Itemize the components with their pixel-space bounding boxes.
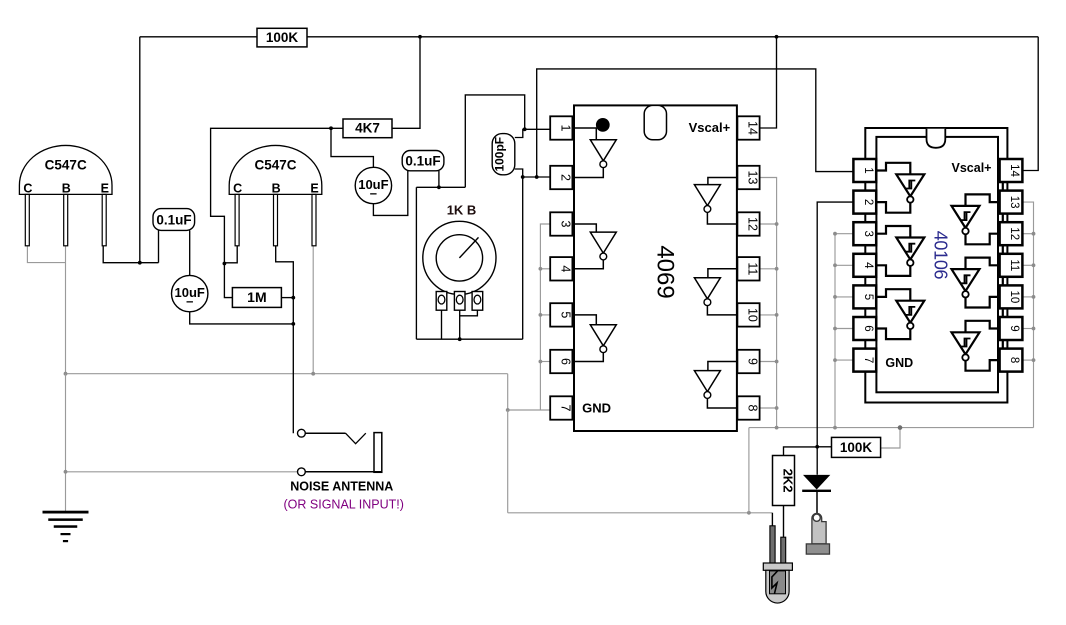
inverter U2D pins13-12 <box>952 194 1000 244</box>
svg-text:0.1uF: 0.1uF <box>156 212 191 227</box>
wire Q2 collector lead <box>224 246 237 263</box>
wire C2 10uF top lead to C1 <box>189 230 191 275</box>
label Vscal+ U2 <box>952 161 992 175</box>
jack tip spring contact <box>346 433 366 444</box>
LED D2 <box>763 526 792 603</box>
wire loop to 4069 pin1 <box>465 95 524 187</box>
node sleeve/ground junction <box>64 470 68 474</box>
svg-text:1M: 1M <box>247 289 266 305</box>
wire 4K7 left lead <box>331 127 343 129</box>
wire top supply rail y=36.8 <box>140 36 1038 38</box>
svg-text:8: 8 <box>1008 357 1020 363</box>
wire jack sleeve line (gray) <box>66 471 298 473</box>
IC U1 pins 1-7 <box>550 116 572 419</box>
IC U2 40106 outer body <box>865 128 1007 403</box>
svg-text:C: C <box>23 182 32 196</box>
svg-text:6: 6 <box>558 358 572 365</box>
svg-text:GND: GND <box>582 401 611 416</box>
svg-text:0.1uF: 0.1uF <box>405 154 440 169</box>
svg-text:C547C: C547C <box>45 157 87 172</box>
wire C5 100pF top lead <box>515 129 525 137</box>
wire pot link down x=522.7 <box>522 177 524 339</box>
svg-text:13: 13 <box>746 171 760 185</box>
wire pot terminal 1 lead <box>441 310 443 339</box>
svg-text:4069: 4069 <box>651 245 678 298</box>
wire Q1 collector lead (gray) <box>27 246 65 263</box>
diode D1 <box>802 475 831 492</box>
svg-text:GND: GND <box>885 356 913 370</box>
inverter U1E pins11-10 <box>694 269 737 315</box>
inverter U1A pins1-2 <box>572 128 616 178</box>
IC U1 4069 body <box>574 105 737 431</box>
transistor Q2 C547C <box>229 145 322 245</box>
svg-text:10: 10 <box>746 308 760 322</box>
capacitor C2 10uF <box>172 275 208 311</box>
wire Q1 emitter lead row <box>103 246 158 263</box>
capacitor C1 0.1uF <box>153 209 195 231</box>
svg-text:1K B: 1K B <box>447 203 477 218</box>
wire 40106 left gray bus with pin stubs <box>833 232 853 430</box>
wire 4K7 junction to C3 10uF top <box>331 128 373 167</box>
wire 1M right lead <box>281 297 293 299</box>
svg-text:1: 1 <box>558 125 572 132</box>
node 4K7 left junction <box>329 126 333 130</box>
wire 4069 pin14 to top rail <box>760 37 777 128</box>
terminal tip open circle <box>298 429 306 437</box>
capacitor C5 100pF <box>492 134 515 175</box>
svg-text:2: 2 <box>558 174 572 181</box>
label GND U2 <box>885 356 913 370</box>
terminal sleeve open circle <box>298 468 306 476</box>
wire jack tip lead <box>305 432 345 434</box>
svg-text:C: C <box>233 182 242 196</box>
IC U2 pins 14-8 <box>1000 159 1023 372</box>
wire mid gray rail y=427.6 <box>749 427 1034 429</box>
wire 2K2 top lead <box>784 447 818 456</box>
node 1M right junction <box>291 296 295 300</box>
jack body <box>374 433 382 473</box>
node Q2 emitter/rail junction <box>311 372 315 376</box>
node C2 bottom junction <box>291 322 295 326</box>
svg-text:3: 3 <box>862 230 874 236</box>
potentiometer 1K B body <box>423 221 496 294</box>
svg-text:100K: 100K <box>266 30 299 45</box>
svg-text:10: 10 <box>1008 291 1020 304</box>
node Q2 collector junction <box>223 262 227 266</box>
inverter U2B pins3-4 <box>876 226 924 276</box>
inverter U1C pins5-6 <box>572 315 616 362</box>
label Vscal+ U1 <box>689 120 731 135</box>
IC U1 pin1 marker dot <box>596 118 610 132</box>
svg-text:B: B <box>272 182 281 196</box>
svg-text:Vscal+: Vscal+ <box>689 120 731 135</box>
node Q1 base/rail junction <box>64 372 68 376</box>
wire 100K R1 left lead down x=139.8 <box>139 37 141 263</box>
capacitor C3 10uF <box>355 167 391 203</box>
svg-text:1: 1 <box>862 167 874 173</box>
wire pot terminal row y=339.2 <box>416 338 522 340</box>
svg-text:6: 6 <box>862 325 874 331</box>
svg-text:8: 8 <box>746 405 760 412</box>
wire Q1 base lead down to rail (gray) <box>65 246 67 374</box>
svg-text:12: 12 <box>1008 227 1020 240</box>
svg-text:E: E <box>101 182 109 196</box>
svg-text:4K7: 4K7 <box>355 121 380 136</box>
wire diode to plug <box>816 492 818 514</box>
node 4069 pin14 / top-rail junction <box>775 35 779 39</box>
capacitor C4 0.1uF <box>402 151 444 171</box>
wire 2K2 bottom lead to LED <box>783 506 785 538</box>
svg-text:Vscal+: Vscal+ <box>952 161 992 175</box>
svg-text:3: 3 <box>558 221 572 228</box>
wire deep gray rail y=512.8 <box>508 512 773 514</box>
svg-text:9: 9 <box>746 358 760 365</box>
svg-text:C547C: C547C <box>254 157 296 172</box>
svg-text:NOISE ANTENNA: NOISE ANTENNA <box>290 480 393 494</box>
wire rail drop to ground <box>65 374 67 512</box>
wire LED cathode drop <box>771 513 773 526</box>
svg-text:7: 7 <box>558 405 572 412</box>
resistor R2 4K7 <box>343 119 392 138</box>
wire Q2 emitter lead down to rail (gray) <box>312 246 314 374</box>
label 4069 <box>651 245 678 298</box>
svg-text:12: 12 <box>746 217 760 231</box>
svg-text:2K2: 2K2 <box>781 469 796 493</box>
inverter U1F pins9-8 <box>694 362 737 409</box>
wire C1 0.1uF left lead <box>158 230 160 262</box>
svg-text:–: – <box>186 294 193 309</box>
resistor R5 100K <box>832 437 881 457</box>
wire C3 10uF bottom to C4 0.1uF <box>373 171 407 216</box>
ground <box>43 511 89 543</box>
svg-text:14: 14 <box>746 121 760 135</box>
svg-text:40106: 40106 <box>931 231 951 280</box>
svg-text:13: 13 <box>1008 196 1020 209</box>
transistor Q1 C547C <box>19 145 112 245</box>
svg-text:11: 11 <box>1008 259 1020 271</box>
svg-text:14: 14 <box>1008 164 1020 177</box>
node rail corner junction <box>506 408 510 412</box>
wire C2 10uF bottom lead <box>190 312 294 324</box>
label 40106 <box>931 231 951 280</box>
node 100pF/pin2 junction <box>521 175 525 179</box>
plug P1 <box>806 513 829 554</box>
wire C4 0.1uF right lead <box>438 171 440 188</box>
wire 40106 right gray bus with pin stubs <box>1022 202 1035 428</box>
inverter U1D pins13-12 <box>694 178 737 225</box>
label OR SIGNAL INPUT <box>284 498 404 512</box>
node pot wiper junction <box>458 337 462 341</box>
inverter U1B pins3-4 <box>572 224 616 269</box>
wire 4069 left gray bus with pin stubs <box>539 224 551 410</box>
IC U2 right inter-pin stubs <box>1002 182 1004 349</box>
wire 100K R5 left lead <box>817 446 831 448</box>
inverter U2E pins11-10 <box>952 258 1000 308</box>
svg-text:9: 9 <box>1008 325 1020 331</box>
node diode/2K2/100K junction <box>815 445 819 449</box>
node 4069 pin1 junction <box>523 127 527 131</box>
wire node to pot row x=416.4 <box>415 187 417 339</box>
IC U2 40106 inner body <box>876 137 998 392</box>
svg-text:7: 7 <box>862 357 874 363</box>
node C4 junction <box>437 185 441 189</box>
wire 4K7 junction to Q2 collector net <box>211 128 331 297</box>
potentiometer terminals <box>436 292 483 311</box>
svg-text:2: 2 <box>862 199 874 205</box>
svg-text:5: 5 <box>862 294 874 300</box>
wire 40106 pin14 to top rail <box>1022 37 1038 171</box>
node E1/100K junction <box>138 261 142 265</box>
inverter U2F pins9-8 <box>952 321 1000 371</box>
wire Q2 base lead to 1M net <box>276 246 294 433</box>
wire 100K R5 right lead up to rail (gray) <box>881 428 900 448</box>
wire gray ground rail y=374 <box>66 373 508 375</box>
node deep rail junction <box>747 511 751 515</box>
node 4K7/top-rail junction <box>418 35 422 39</box>
svg-text:100pF: 100pF <box>493 137 507 172</box>
wire 4069 pin2 lead row <box>523 176 551 178</box>
resistor R4 2K2 <box>773 456 796 506</box>
IC U2 notch <box>927 129 946 148</box>
IC U1 notch <box>644 105 666 139</box>
wire gray riser x=748.9 <box>748 428 750 513</box>
svg-text:5: 5 <box>558 311 572 318</box>
wire 4069 pin1 lead <box>525 128 551 130</box>
node pin2 riser junction <box>535 175 539 179</box>
inverter U2A pins1-2 <box>876 163 924 213</box>
wire C5 100pF bottom lead <box>515 169 523 177</box>
svg-text:E: E <box>310 182 318 196</box>
node 100K/rail junction <box>898 425 903 430</box>
svg-text:11: 11 <box>746 262 760 275</box>
svg-text:(OR SIGNAL INPUT!): (OR SIGNAL INPUT!) <box>284 498 404 512</box>
wire 4K7 right lead to top rail <box>392 37 420 129</box>
svg-text:4: 4 <box>558 265 572 272</box>
wire rail corner down x=507.7 <box>508 374 551 410</box>
label GND U1 <box>582 401 611 416</box>
svg-text:B: B <box>62 182 71 196</box>
wire 4069 right gray bus with pin stubs <box>760 178 779 430</box>
wire gray drop to deep rail <box>507 410 509 513</box>
wire 40106 pin2 to diode node <box>817 202 853 475</box>
wire jack sleeve lead <box>305 471 382 473</box>
wire 4069 pin2 to 40106 pin1 <box>537 69 854 177</box>
IC U2 pins 1-7 <box>853 159 876 372</box>
svg-text:4: 4 <box>862 262 874 269</box>
label NOISE ANTENNA <box>290 480 393 494</box>
wire node row y=187.3 <box>416 186 465 188</box>
inverter U2C pins5-6 <box>876 289 924 339</box>
wire pot terminal 3 jog <box>460 310 478 316</box>
svg-text:100K: 100K <box>840 440 873 455</box>
svg-text:–: – <box>370 186 377 201</box>
resistor R3 1M <box>232 288 281 308</box>
resistor R1 100K <box>257 28 307 47</box>
IC U1 pins 14-8 <box>737 116 759 419</box>
label 1K B <box>447 203 477 218</box>
wire pot terminal 2 lead <box>459 310 461 339</box>
